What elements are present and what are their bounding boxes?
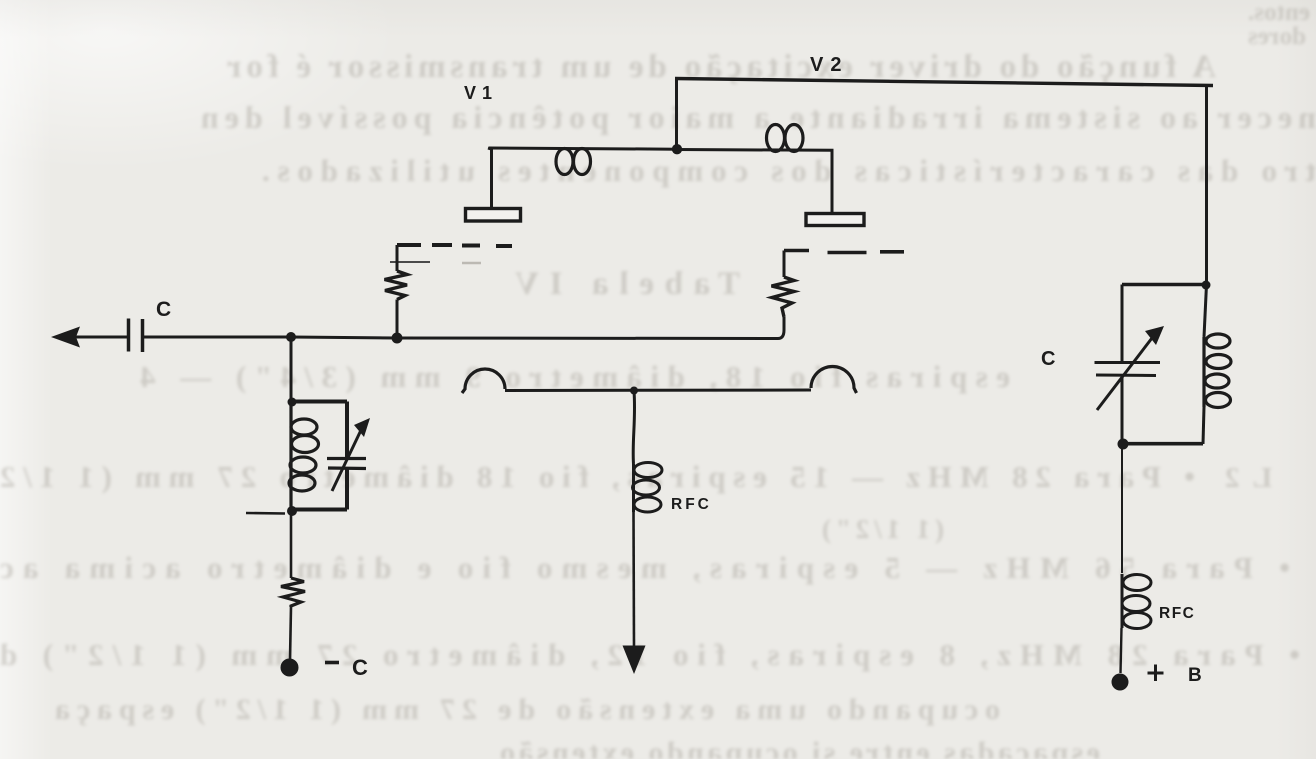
tube V1 plate <box>466 209 521 222</box>
wire: V1 grid to resistor <box>396 245 399 271</box>
node: tank bottom-left <box>287 506 297 516</box>
node: plate-supply centre tap <box>672 144 682 154</box>
node: tank bottom-left <box>1118 439 1129 450</box>
output tank: top wire <box>1122 283 1207 287</box>
tube V2 plate <box>806 214 864 226</box>
coil (plate tank, right half, loops above line) <box>767 125 785 152</box>
variable capacitor plates <box>327 457 366 460</box>
wire: centre tap up to B+ line <box>675 79 678 149</box>
wire: grid bus horizontal line <box>76 317 784 339</box>
svg-text:RFC: RFC <box>1159 605 1195 622</box>
node: tank meets B+ drop <box>1202 281 1211 290</box>
coil (output tank), top lead <box>1204 285 1207 338</box>
coil (output tank) loops <box>1204 334 1231 408</box>
svg-text:RFC: RFC <box>671 496 712 513</box>
wire: V2 grid to resistor <box>783 251 786 278</box>
capacitor C (coupling), plate 2 <box>141 319 145 352</box>
terminal dot +B <box>1112 674 1129 691</box>
coil (output tank), bottom lead <box>1203 407 1204 444</box>
RFC choke (cathode) loops <box>633 463 663 513</box>
coil L1 (grid tank coil) <box>289 402 319 510</box>
variable capacitor arrow (output) <box>1097 338 1152 410</box>
resistor (grid bias, lower left) <box>281 578 305 607</box>
tube V2 cathode (arc) <box>811 366 857 393</box>
wire: resistor to -C terminal <box>290 607 291 660</box>
tube V1 grid (dashed) <box>397 245 512 246</box>
wire: junction down to grid tank <box>290 337 293 402</box>
node: R1 meets grid bus <box>392 333 403 344</box>
coil (plate tank, left half, loops below line) <box>556 149 573 175</box>
wire: cathode tap down to RFC <box>633 391 634 465</box>
wire: B+ top line <box>675 79 1213 86</box>
node: cathode centre tap <box>630 387 638 395</box>
tube V1 screen grid line (faint) <box>390 261 430 263</box>
tap tick at tank bottom <box>246 512 285 515</box>
wire: centre node to V2 plate corner <box>677 150 832 214</box>
tube V1 cathode (arc) <box>462 369 505 393</box>
resistor R1 (V1 grid leak) <box>385 271 408 300</box>
svg-text:C: C <box>352 655 368 680</box>
wire: B+ line down right side <box>1205 86 1208 285</box>
terminal dot -C <box>281 659 299 677</box>
svg-text:C: C <box>156 298 171 321</box>
tube V2 grid (dashed) <box>784 251 904 253</box>
wire: tank to RFC (B+ branch) <box>1121 444 1123 573</box>
wire: RFC to ground arrow <box>632 512 635 648</box>
tube V1 plate lead <box>488 148 492 208</box>
variable capacitor, right branch bottom wire <box>345 469 349 510</box>
svg-text:B: B <box>1188 665 1202 686</box>
wire: resistor R1 to grid bus <box>396 300 399 334</box>
wire: tank to bias resistor <box>290 511 293 578</box>
output tank: bottom wire <box>1122 442 1203 446</box>
RFC choke (B+ feed) loops <box>1122 574 1151 629</box>
svg-text:C: C <box>1041 348 1055 370</box>
ground arrow (down) <box>623 646 646 675</box>
variable capacitor (grid tank), right branch top wire <box>345 402 349 459</box>
resistor R2 (V2 grid leak) <box>772 277 795 317</box>
wire: V1 plate to centre node <box>489 148 677 149</box>
node: junction of grid bus and grid tank <box>286 332 296 342</box>
variable capacitor arrow <box>332 428 362 491</box>
variable capacitor C (output), plate 1 <box>1095 361 1161 364</box>
wire: tank left branch lower <box>1121 376 1124 445</box>
variable capacitor C (output), plate 2 <box>1096 374 1156 378</box>
label -C <box>325 661 339 665</box>
grid tank: top wire <box>291 400 347 404</box>
capacitor C (coupling), plate 1 <box>127 319 131 352</box>
wire: RFC to +B terminal <box>1121 628 1122 673</box>
label +B <box>1148 665 1164 682</box>
wire: cathode bus <box>505 389 811 393</box>
input arrow (to exciter) <box>51 327 80 348</box>
svg-text:V2: V2 <box>810 54 848 76</box>
svg-text:V1: V1 <box>464 83 498 103</box>
grid tank: bottom wire <box>291 508 347 512</box>
wire: tank left branch upper <box>1121 285 1124 363</box>
node: tank top-left <box>288 398 297 407</box>
